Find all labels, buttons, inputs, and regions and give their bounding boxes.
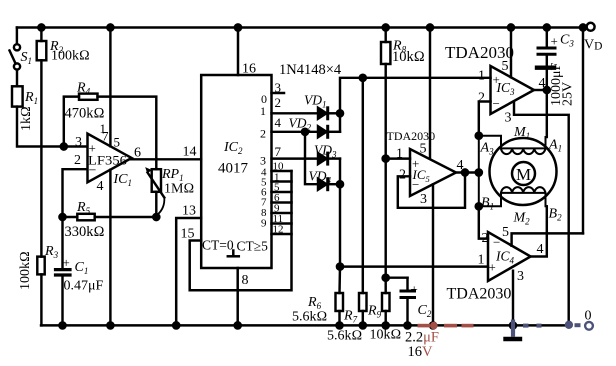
blue marker vertical at ground [511,320,515,338]
wire IC5 pin5 to top rail [429,28,431,159]
wire M1 right to node A1 [546,137,547,148]
svg-text:1: 1 [478,253,485,268]
node B1 [476,203,482,209]
wire IC2 out3 to VD3 [272,157,319,159]
svg-text:13: 13 [182,204,196,219]
blue marker dashes on bottom rail [523,324,529,328]
wire VD3 VD4 cathode bus to IC4 pin1 line [339,159,341,267]
wire IC3 output to C3 node [534,89,547,91]
wire IC1 output to IC2 pin14 [130,158,201,160]
resistor R7 [359,293,367,311]
svg-text:M: M [516,165,531,184]
wire IC4 pin1 line [340,265,488,267]
wire R2 to R3 [40,60,42,256]
svg-text:3: 3 [517,269,524,284]
resistor R5 [63,216,78,218]
svg-text:5: 5 [114,135,121,150]
wire M2 left to node B1 [479,193,501,206]
svg-text:−: − [412,177,419,192]
wire IC2 out2 to VD2 [272,131,319,133]
svg-text:2: 2 [260,127,266,141]
wire IC5 output [456,171,479,173]
svg-text:5.6kΩ: 5.6kΩ [292,310,327,325]
wire IC3 pin3 line to right rail [514,102,569,325]
wire IC2 pin13 to bottom rail [176,218,201,325]
svg-text:2: 2 [399,168,406,183]
diode VD3 [318,153,327,164]
resistor R3 [37,257,44,275]
wire R8 down to IC5 pin1 node and R9 node [384,64,386,293]
wire R1 to pin3 node [17,107,87,147]
capacitor C1 [56,268,71,271]
wire IC2 out1 to VD1 [272,112,319,114]
svg-text:3: 3 [505,111,512,126]
svg-text:4: 4 [537,242,544,257]
svg-text:470kΩ: 470kΩ [65,106,105,122]
svg-text:+: + [411,282,418,297]
svg-text:1: 1 [396,147,403,162]
svg-text:4017: 4017 [218,161,249,177]
wire IC3 pin5 to top rail [510,28,512,78]
svg-text:2: 2 [482,231,489,246]
svg-text:0.47μF: 0.47μF [64,279,104,294]
wire top supply rail [17,26,587,28]
wire out2 branch to VD4 [305,132,318,184]
svg-text:8: 8 [242,273,249,288]
svg-text:1MΩ: 1MΩ [164,182,194,197]
resistor R2 [38,24,44,30]
wire RP1 to R5 node [155,192,157,217]
svg-text:−: − [493,96,500,111]
svg-text:16V: 16V [408,344,434,360]
svg-text:2: 2 [74,153,81,168]
resistor R4 [64,97,79,147]
op-amp U3 TDA2030 triangle [491,66,535,114]
diode VD2 [318,126,327,137]
svg-text:3: 3 [275,80,282,95]
ground symbol inside IC2 [232,251,235,257]
svg-text:330kΩ: 330kΩ [65,224,105,240]
node junction diode wire to R7 [360,75,366,81]
svg-text:5.6kΩ: 5.6kΩ [327,329,362,344]
red marker overlay on bottom rail [418,324,431,328]
ground symbol [506,337,521,341]
svg-text:3: 3 [420,192,427,207]
svg-text:2: 2 [275,95,282,110]
svg-text:TDA2030: TDA2030 [447,286,512,303]
IC2 4017 box [201,75,271,268]
svg-text:+: + [551,34,558,49]
wire IC4 pin2 to node B1 [479,206,488,238]
svg-text:4: 4 [457,158,464,173]
svg-text:7: 7 [275,144,282,159]
svg-text:5: 5 [502,225,509,240]
terminal 0 [585,322,593,330]
svg-text:CT=0: CT=0 [202,238,234,253]
wire IC5 pin3 to bottom rail [432,185,434,326]
wire IC2 output stubs 4-9 and carry to bus [272,170,292,173]
svg-text:12: 12 [273,224,284,236]
svg-text:3: 3 [75,135,82,150]
svg-text:14: 14 [183,145,197,160]
svg-text:1N4148×4: 1N4148×4 [279,62,342,78]
svg-text:16: 16 [242,62,256,77]
wire R4 to RP1 [98,97,157,170]
capacitor C2 [386,276,408,278]
wire diode bus node down to R7 [362,78,364,293]
wire IC5 feedback loop [398,173,465,208]
wire IC4 pin5 line [512,233,583,245]
wire M1 left to node A3 [479,136,501,149]
svg-text:9: 9 [261,218,267,230]
wire node to IC5 pin1 [386,157,410,159]
op-amp U1 LF356 triangle [88,134,132,183]
diode VD1 [318,108,327,119]
svg-text:4: 4 [97,179,104,194]
wire pin2 node vertical [63,169,87,268]
wire S1 to R1 [16,70,18,87]
wire motor common vertical [478,136,480,207]
svg-text:TDA2030: TDA2030 [387,129,436,143]
wire VD1 VD2 cathode bus [340,78,491,132]
svg-text:4: 4 [539,76,546,91]
wire C3 node down to A1 [546,90,548,137]
motor M body [490,138,557,205]
svg-text:100kΩ: 100kΩ [18,251,33,290]
blue marker blob at rail corner [565,321,573,329]
wire M2 right to node B2 [546,193,547,206]
svg-text:6: 6 [134,146,141,161]
svg-text:10kΩ: 10kΩ [370,328,402,343]
wire R3 to bottom rail [40,274,42,325]
diode VD4 [318,179,327,190]
wire IC1 pin4 to bottom rail [109,170,111,326]
svg-text:2: 2 [478,91,485,106]
svg-text:+: + [63,255,70,270]
svg-text:+: + [489,260,496,275]
svg-text:100kΩ: 100kΩ [51,49,90,64]
svg-text:15: 15 [181,227,195,242]
capacitor C3 [544,24,550,30]
op-amp U5 TDA2030 triangle [410,149,456,196]
wire IC4 output up to B2 [531,206,547,256]
svg-text:4: 4 [275,115,282,130]
winding M1 [501,148,545,154]
wire IC2 pin8 to bottom rail [236,268,239,325]
svg-text:−: − [493,235,500,250]
terminal VDD [587,23,595,31]
svg-text:10kΩ: 10kΩ [392,49,425,65]
node A3 [476,133,482,139]
wire IC3 pin2 to node A3 [479,102,491,136]
svg-text:3: 3 [260,154,266,168]
resistor R9 [382,293,390,311]
winding M2 [501,187,545,193]
svg-text:1kΩ: 1kΩ [19,106,34,131]
wire IC2 output0 stub pin3 [272,92,285,95]
wire IC4 pin3 to ground [512,271,514,326]
op-amp U4 TDA2030 triangle [488,232,531,281]
switch S1 [14,44,20,50]
svg-text:5: 5 [420,142,427,157]
svg-text:CT≥5: CT≥5 [237,239,269,254]
resistor R8 [383,24,389,30]
svg-text:7: 7 [102,129,109,144]
svg-text:VD: VD [584,38,602,53]
wire IC2 pin16 to top rail [237,28,240,76]
resistor R1 [12,86,23,106]
wire IC2 pin15 reset loop [190,171,292,290]
svg-text:5: 5 [502,59,509,74]
resistor R6 [336,293,344,311]
svg-text:LF356: LF356 [88,154,127,168]
wire IC1 pin7 to top rail [109,28,111,147]
svg-text:1: 1 [260,104,266,118]
potentiometer RP1 [152,169,161,192]
svg-text:25V: 25V [561,82,576,106]
wire right power rail to IC4 pin5 [582,28,584,234]
svg-text:0: 0 [585,309,592,324]
svg-text:1: 1 [478,69,485,84]
wire bottom 0V rail [41,324,569,326]
wire S1 branch from top rail [16,28,18,45]
